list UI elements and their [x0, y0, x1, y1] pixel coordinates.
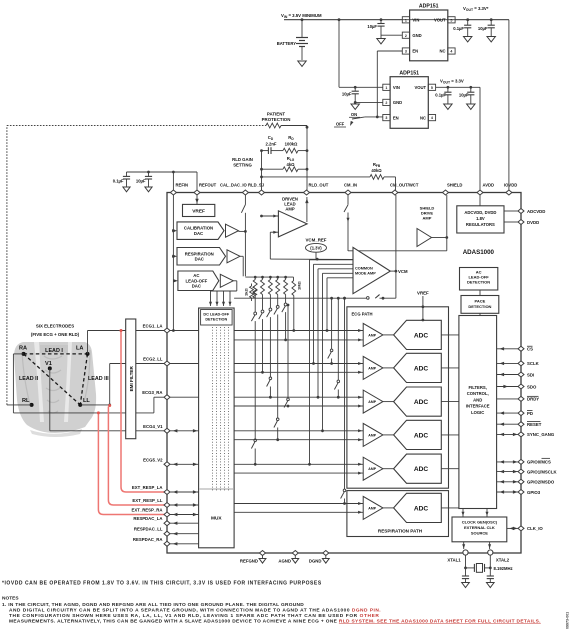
svg-text:DETECTION: DETECTION [468, 304, 491, 309]
svg-text:FILTERS,: FILTERS, [469, 385, 487, 390]
pin REFGND [260, 551, 266, 556]
wire LA [87, 331, 89, 354]
svg-text:AMP: AMP [368, 366, 376, 370]
svg-text:DGND: DGND [309, 559, 322, 564]
wire cm tap [314, 263, 354, 265]
wire ac leadoff fanout [233, 280, 237, 282]
svg-text:CM_OUT/WCT: CM_OUT/WCT [390, 183, 419, 188]
wire RLD_OUT stub [306, 151, 308, 190]
wire reg2 VOUT [436, 86, 480, 88]
amp A4 [363, 423, 383, 446]
svg-text:GPIO1/MSCLK: GPIO1/MSCLK [527, 469, 558, 474]
ground 0.1uF reg2 [444, 104, 452, 109]
wire shield amp out [432, 237, 447, 239]
wire V1 [49, 368, 51, 430]
wire cm tap [310, 259, 354, 261]
capacitor 10uF reg1 [380, 18, 383, 21]
wire vcm ref rail [315, 252, 317, 259]
electrode RA [22, 352, 26, 356]
pin RESET [518, 422, 524, 427]
wire ADC5 to filters [441, 468, 459, 470]
svg-text:SETTING: SETTING [233, 163, 252, 168]
svg-text:ECG3_RA: ECG3_RA [142, 390, 162, 395]
buffer amp ac DAC [220, 274, 233, 287]
wire resp amp inputs [234, 503, 363, 505]
wire XTAL2 leg [489, 555, 491, 576]
svg-text:DAC: DAC [194, 231, 203, 236]
electrode V1 [48, 366, 52, 370]
svg-text:ON: ON [351, 112, 357, 117]
svg-text:GPIO2/MSDO: GPIO2/MSDO [527, 480, 555, 485]
capacitor 0.1uF reg2 out [447, 86, 450, 89]
wire cm tap [327, 277, 353, 279]
svg-text:RLD_SJ: RLD_SJ [248, 183, 265, 188]
pin EXT_RESP_RA [164, 512, 170, 517]
svg-text:SOURCE: SOURCE [471, 531, 488, 536]
pin ECG4_V1 [164, 428, 170, 433]
pin CM_OUT/WCT [392, 190, 398, 195]
pin RESPDAC_LL [164, 531, 170, 536]
svg-text:NOTES: NOTES [2, 596, 19, 602]
wire REFIN-REFOUT link [127, 171, 198, 173]
block AC lead-off detection [460, 268, 498, 291]
wire resp dac route [240, 255, 243, 257]
svg-text:IOVDD: IOVDD [504, 183, 517, 188]
svg-text:ADP151: ADP151 [419, 4, 439, 10]
svg-text:VREF: VREF [417, 291, 429, 296]
pin CS [518, 346, 524, 351]
pin XTAL1 [463, 550, 468, 555]
adc ADC4 [394, 420, 442, 449]
ground 10uF reg2 out [467, 104, 475, 109]
svg-text:RESPDAC_LA: RESPDAC_LA [133, 516, 162, 521]
svg-text:RA: RA [19, 346, 27, 352]
svg-text:2: 2 [405, 34, 407, 38]
wire vref to adc1 [422, 319, 425, 322]
svg-text:NC: NC [440, 49, 446, 54]
svg-text:3: 3 [405, 50, 407, 54]
svg-text:0.1µF: 0.1µF [113, 179, 124, 184]
op-amp common mode [353, 247, 390, 293]
svg-text:REFIN: REFIN [176, 183, 189, 188]
pin GPIO1/MSCLK [518, 469, 524, 474]
pin SDI [518, 372, 524, 377]
wire ADC2 to filters [441, 367, 459, 369]
svg-text:SDO: SDO [527, 384, 537, 389]
svg-text:CLOCK GEN(OSC): CLOCK GEN(OSC) [462, 520, 498, 525]
pin REFIN [170, 190, 176, 195]
wire protection to RLD_OUT [281, 125, 307, 127]
DAC AC lead-off [178, 271, 219, 291]
pin RLD_SJ [259, 190, 265, 195]
block 1.8V regulators [457, 206, 504, 233]
svg-text:100kΩ: 100kΩ [285, 142, 298, 147]
svg-text:PATIENT: PATIENT [267, 112, 285, 117]
svg-text:LEAD I: LEAD I [45, 348, 63, 354]
pin CAL_DAC_IO [242, 190, 248, 195]
wire ADC4 to filters [441, 434, 459, 436]
svg-text:BATTERY: BATTERY [277, 41, 297, 46]
svg-text:INTERFACE: INTERFACE [466, 404, 490, 409]
amp A2 [363, 356, 383, 379]
ground cap reg1 [377, 39, 385, 44]
svg-text:ADC: ADC [414, 332, 429, 339]
svg-text:CD: CD [268, 135, 274, 141]
wire vcm return [234, 297, 366, 299]
svg-text:SHIELD: SHIELD [447, 183, 462, 188]
wire bank column [254, 321, 256, 439]
svg-text:EXT_RESP_RA: EXT_RESP_RA [131, 508, 162, 513]
wire bank column [262, 319, 264, 372]
wire LL [80, 404, 110, 406]
svg-text:REFGND: REFGND [240, 559, 258, 564]
wire resp tap LL red [108, 407, 166, 506]
extra switch columns [331, 298, 333, 349]
wire IOVDD feed [508, 20, 510, 190]
svg-text:RESET: RESET [527, 422, 542, 427]
svg-text:ADC: ADC [414, 505, 429, 512]
pin DGND [323, 551, 329, 556]
svg-text:CM_IN: CM_IN [344, 183, 357, 188]
svg-text:REGULATORS: REGULATORS [466, 222, 495, 227]
block DC lead-off / MUX [199, 308, 235, 548]
block clock gen [452, 517, 507, 542]
EMI filter [126, 319, 136, 439]
svg-text:AND: AND [473, 397, 482, 402]
wire amp lower inputs [234, 339, 363, 341]
svg-text:CAL_DAC_IO: CAL_DAC_IO [220, 183, 247, 188]
wire XTAL1 leg [465, 555, 467, 576]
svg-text:LEAD II: LEAD II [19, 376, 39, 382]
svg-text:ECG5_V2: ECG5_V2 [143, 457, 163, 462]
pin ECG2_LL [164, 361, 170, 366]
svg-text:RESPDAC_LL: RESPDAC_LL [134, 527, 163, 532]
resistor lead-off bank [254, 276, 257, 279]
svg-text:XTAL2: XTAL2 [496, 558, 510, 563]
svg-text:VOUT: VOUT [414, 85, 426, 90]
wire bank column [269, 317, 271, 377]
svg-text:*IOVDD CAN BE OPERATED FROM 1.: *IOVDD CAN BE OPERATED FROM 1.8V TO 3.6V… [2, 581, 322, 587]
wire driven lead noninv input [270, 231, 278, 233]
svg-text:3: 3 [385, 116, 387, 120]
svg-text:SIX ELECTRODES: SIX ELECTRODES [36, 324, 74, 329]
pin EXT_RESP_LL [164, 503, 170, 508]
wire reg2 EN [376, 116, 379, 119]
svg-text:MODE AMP: MODE AMP [355, 272, 376, 276]
electrode LL [78, 403, 82, 407]
svg-text:2.2nF: 2.2nF [266, 142, 277, 147]
pin CM_IN [345, 190, 351, 195]
pin AVDD [477, 190, 483, 195]
svg-text:RESPDAC_RA: RESPDAC_RA [133, 537, 163, 542]
wire filters to clock [462, 509, 464, 518]
svg-text:EN: EN [412, 49, 418, 54]
svg-text:RESPIRATION PATH: RESPIRATION PATH [378, 529, 423, 534]
svg-text:RLD_OUT: RLD_OUT [309, 183, 329, 188]
svg-text:10µF: 10µF [459, 93, 469, 98]
adc ADC5 [394, 454, 442, 483]
svg-text:RLD GAIN: RLD GAIN [232, 157, 253, 162]
pin SCLK [518, 361, 524, 366]
wire VIN2 feed [338, 18, 341, 21]
svg-text:LL: LL [83, 398, 90, 404]
amp A6 [363, 496, 383, 519]
svg-text:COMMON: COMMON [355, 267, 373, 271]
svg-text:ADAS1000: ADAS1000 [463, 249, 495, 256]
capacitor 10uF reg1 out [490, 18, 493, 21]
block respiration path [347, 491, 449, 537]
block ECG path [347, 307, 449, 488]
electrode RL [30, 403, 34, 407]
svg-text:SDI: SDI [527, 372, 534, 377]
svg-text:ADP151: ADP151 [399, 71, 419, 77]
ground REFGND [259, 559, 266, 564]
capacitor XTAL1 [462, 575, 469, 577]
svg-text:GPIO3: GPIO3 [527, 490, 541, 495]
DAC respiration [177, 248, 226, 266]
svg-text:10µF: 10µF [136, 179, 146, 184]
svg-text:EN: EN [393, 115, 399, 120]
svg-text:PROTECTION: PROTECTION [262, 117, 291, 122]
svg-text:DC LEAD-OFF: DC LEAD-OFF [203, 313, 229, 317]
ground 10uF reg1 out [487, 37, 495, 42]
svg-text:ADC: ADC [414, 432, 429, 439]
pin CLK_IO [518, 526, 524, 531]
ground AGND [292, 559, 299, 564]
resistor lead-off bank [269, 276, 272, 279]
svg-text:AGND: AGND [278, 559, 291, 564]
wire ADC6 to filters [441, 507, 459, 509]
overline MCS [542, 457, 551, 459]
mux internal dotted lines [212, 327, 214, 492]
capacitor 10uF reg2 out [469, 86, 472, 89]
svg-text:VCM_REF: VCM_REF [306, 237, 327, 242]
svg-text:DRDY: DRDY [527, 397, 539, 402]
pin XTAL2 [488, 550, 493, 555]
pin DVDD [504, 221, 518, 223]
capacitor 10uF reg2 in [354, 86, 357, 89]
svg-text:REFOUT: REFOUT [199, 183, 217, 188]
ground 0.1uF reg1 [464, 37, 472, 42]
pin SYNC_GANG [518, 432, 524, 437]
ground battery [298, 61, 306, 66]
wire reg1 VOUT [455, 19, 509, 21]
lead III dashed [80, 354, 87, 405]
pin AGND [292, 551, 298, 556]
svg-text:5: 5 [450, 18, 452, 22]
svg-text:EXT_RESP_LL: EXT_RESP_LL [132, 498, 162, 503]
buffer amp cal DAC [226, 224, 239, 237]
ground XTAL1 [462, 583, 470, 588]
wire resistor bank rail [245, 276, 293, 278]
svg-text:AVDD: AVDD [483, 183, 495, 188]
adc ADC3 [394, 387, 442, 416]
svg-text:AMP: AMP [368, 506, 376, 510]
svg-text:AMP: AMP [368, 333, 376, 337]
ground XTAL2 [487, 583, 495, 588]
pin GPIO2/MSDO [518, 479, 524, 484]
svg-text:(1.3V): (1.3V) [310, 246, 322, 251]
svg-text:ADCVDD: ADCVDD [527, 209, 545, 214]
svg-text:GPIO0/MCS: GPIO0/MCS [527, 460, 551, 465]
svg-text:OFF: OFF [336, 122, 345, 127]
lead II dashed [24, 354, 81, 405]
svg-text:09973-001: 09973-001 [566, 612, 570, 629]
svg-text:ECG4_V1: ECG4_V1 [143, 424, 163, 429]
wire ADC3 to filters [441, 401, 459, 403]
svg-text:40kΩ: 40kΩ [371, 168, 382, 173]
svg-text:1.8V: 1.8V [476, 216, 485, 221]
svg-text:8.192MHz: 8.192MHz [494, 566, 513, 571]
svg-text:0.1µF: 0.1µF [435, 93, 446, 98]
wire RL drive dashed [7, 404, 32, 406]
svg-text:5: 5 [431, 86, 433, 90]
svg-text:RL: RL [22, 398, 30, 404]
svg-text:ADC: ADC [414, 399, 429, 406]
wire reg1 VIN [284, 19, 402, 21]
svg-text:VOUT: VOUT [434, 18, 446, 23]
wire reg1 GND pin jog [381, 34, 402, 36]
block VREF [183, 204, 215, 216]
svg-text:1kΩ: 1kΩ [244, 288, 249, 296]
electrode LA [86, 352, 90, 356]
resistor lead-off bank [261, 276, 264, 279]
wire RA [13, 353, 23, 355]
svg-text:NC: NC [420, 115, 426, 120]
svg-text:GND: GND [412, 33, 421, 38]
svg-text:DETECTION: DETECTION [205, 318, 227, 322]
lead I dashed [24, 353, 88, 355]
svg-text:SCLK: SCLK [527, 361, 540, 366]
pin ADCVDD [504, 210, 518, 212]
wire resp tap RA red [98, 413, 166, 515]
wire bank column [277, 315, 279, 419]
wire bank column [285, 312, 287, 340]
wire VCM output [390, 270, 396, 272]
ground 0.1uF REFIN [123, 187, 130, 192]
svg-text:VIN: VIN [393, 85, 400, 90]
wire shield amp feed [348, 250, 447, 252]
block pace detection [461, 296, 499, 314]
pin RESPDAC_LA [164, 521, 170, 526]
wire CM_IN switch path [347, 195, 349, 205]
wire RLD_SJ stub [261, 151, 263, 190]
svg-text:ECG1_LA: ECG1_LA [143, 324, 163, 329]
wire cm tap [323, 272, 354, 274]
svg-text:MEASUREMENTS. ALTERNATIVELY, T: MEASUREMENTS. ALTERNATIVELY, THIS CAN BE… [9, 619, 541, 625]
svg-text:RD: RD [288, 135, 294, 141]
wire cal dac io switch [244, 195, 246, 205]
svg-text:1: 1 [385, 86, 387, 90]
svg-text:AMP: AMP [423, 216, 432, 221]
resistor patient protection [266, 123, 281, 128]
capacitor 0.1uF REFIN [126, 172, 128, 176]
svg-text:ECG2_LL: ECG2_LL [143, 357, 163, 362]
buffer amp resp DAC [227, 250, 240, 263]
pin ECG5_V2 [164, 462, 170, 467]
wire resp tap LA red [121, 331, 166, 493]
wire ADC1 to filters [441, 334, 459, 336]
svg-text:MUX: MUX [211, 516, 222, 522]
capacitor 10uF REFIN [148, 172, 150, 176]
pin RESPDAC_RA [164, 541, 170, 546]
svg-text:XTAL1: XTAL1 [447, 558, 461, 563]
svg-text:RLG: RLG [287, 156, 295, 162]
pin RLD_OUT [304, 190, 310, 195]
pin REFOUT [194, 190, 200, 195]
svg-text:4kΩ: 4kΩ [286, 162, 295, 167]
resistor 1k lead-off [251, 284, 253, 287]
svg-text:4: 4 [431, 116, 433, 120]
adc ADC2 [394, 353, 442, 382]
wire driven lead out [306, 197, 308, 222]
capacitor 0.1uF reg1 out [466, 18, 469, 21]
svg-text:ADC: ADC [414, 365, 429, 372]
svg-text:VCM: VCM [398, 269, 408, 274]
pin DRDY [518, 396, 524, 401]
wire EN link [377, 50, 402, 52]
wire amp upper inputs [234, 330, 363, 332]
svg-text:LEAD III: LEAD III [88, 376, 109, 382]
wire clock to xtal2 [489, 542, 491, 549]
pin GPIO3 [518, 490, 524, 495]
IC U1 ADAS1000 [167, 193, 521, 554]
resistor lead-off bank [276, 276, 279, 279]
svg-text:EXT_RESP_LA: EXT_RESP_LA [132, 485, 163, 490]
pin ECG3_RA [164, 395, 170, 400]
svg-text:AMP: AMP [368, 467, 376, 471]
svg-text:SYNC_GANG: SYNC_GANG [527, 432, 555, 437]
svg-text:VREF: VREF [192, 209, 205, 215]
resistor lead-off bank [284, 276, 287, 279]
svg-text:DAC: DAC [195, 256, 204, 261]
svg-text:10µF: 10µF [478, 26, 488, 31]
capacitor XTAL2 [487, 575, 494, 577]
svg-text:4: 4 [450, 50, 452, 54]
svg-text:CONTROL,: CONTROL, [467, 391, 489, 396]
patient torso [14, 342, 96, 437]
resistor 1M lead-off [293, 277, 295, 280]
svg-text:DETECTION: DETECTION [467, 280, 490, 285]
ground cap reg2 [351, 104, 359, 109]
wire cm tap [318, 268, 353, 270]
svg-text:AND DIGITAL CIRCUITRY CAN BE S: AND DIGITAL CIRCUITRY CAN BE SPLIT INTO … [9, 608, 381, 614]
adc ADC6 [394, 493, 442, 522]
svg-text:AMP: AMP [368, 400, 376, 404]
crystal Y1 8.192MHz [466, 567, 475, 569]
svg-text:PACE: PACE [474, 299, 485, 304]
svg-text:10µF: 10µF [367, 24, 377, 29]
svg-text:10µF: 10µF [342, 92, 352, 97]
svg-text:2: 2 [385, 101, 387, 105]
block filters control interface logic [459, 316, 497, 509]
svg-text:THE CONFIGURATION SHOWN HERE U: THE CONFIGURATION SHOWN HERE USES RA, LA… [9, 613, 379, 619]
svg-text:(FIVE ECG + ONE RLD): (FIVE ECG + ONE RLD) [31, 332, 80, 337]
svg-text:LOGIC: LOGIC [471, 410, 484, 415]
pin EXT_RESP_LA [164, 490, 170, 495]
pin SHIELD [443, 190, 449, 195]
svg-text:CS: CS [527, 347, 533, 352]
svg-text:EXTERNAL CLK: EXTERNAL CLK [464, 525, 495, 530]
DAC calibration [177, 222, 224, 240]
wire reg2 GND pin jog [355, 101, 383, 103]
pin GPIO0/MCS [518, 459, 524, 464]
wire driven lead inv input [260, 215, 263, 218]
wire REFIN internal rail [172, 195, 174, 331]
wire avdd to regulators [479, 195, 481, 206]
svg-text:CLK_IO: CLK_IO [527, 526, 543, 531]
battery B1 [301, 20, 303, 37]
